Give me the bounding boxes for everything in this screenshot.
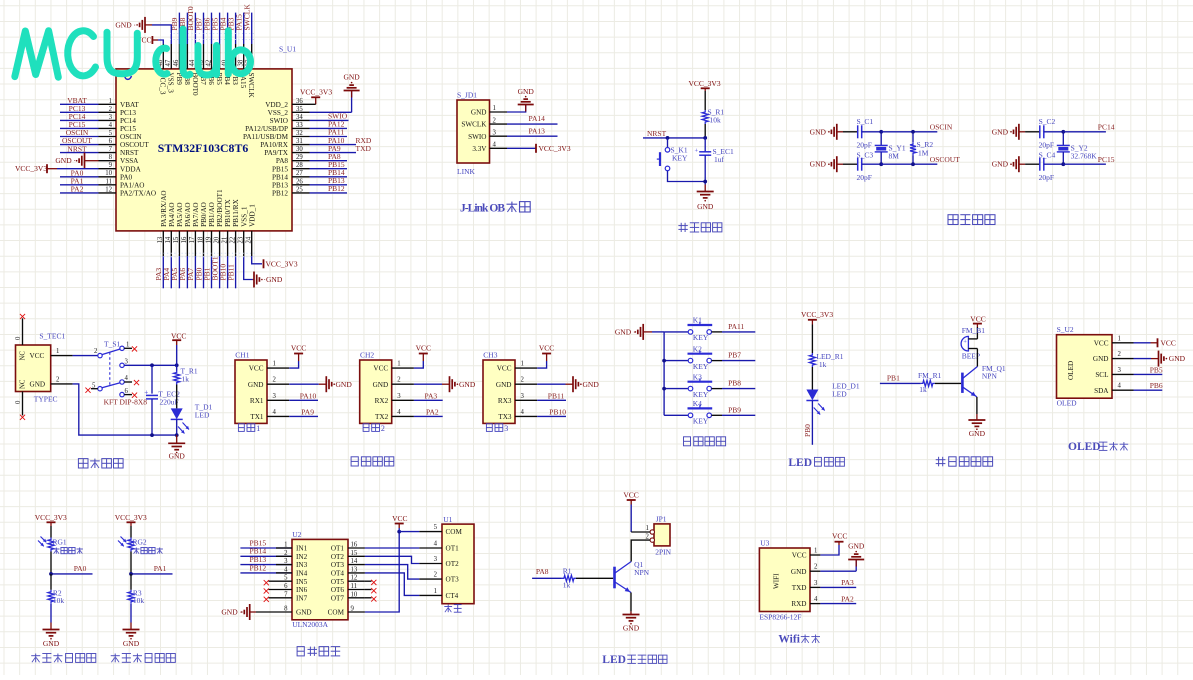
svg-text:3: 3 xyxy=(125,358,129,365)
svg-text:+: + xyxy=(963,339,967,346)
svg-text:NRST: NRST xyxy=(67,144,87,153)
wire OT1 xyxy=(365,547,419,549)
svg-text:WIFI: WIFI xyxy=(773,573,781,589)
svg-text:IN2: IN2 xyxy=(296,553,308,561)
svg-text:PC14: PC14 xyxy=(120,117,136,125)
svg-text:14: 14 xyxy=(165,236,172,243)
mcu top pin 41 PB5 xyxy=(219,44,221,69)
svg-text:S_C2: S_C2 xyxy=(1039,117,1056,126)
svg-text:6: 6 xyxy=(284,583,288,590)
svg-text:PA2: PA2 xyxy=(841,594,854,603)
mcu right pin 35 VSS_2 xyxy=(292,111,310,113)
mcu left pin 12 PA2/TX/AO xyxy=(99,192,117,194)
svg-text:KEY: KEY xyxy=(672,153,688,162)
svg-text:GND ·: GND · xyxy=(992,160,1013,169)
svg-text:PC15: PC15 xyxy=(120,125,136,133)
svg-text:S_C3: S_C3 xyxy=(857,150,874,159)
svg-text:STM32F103C8T6: STM32F103C8T6 xyxy=(158,141,249,155)
svg-text:OSCOUT: OSCOUT xyxy=(120,141,149,149)
svg-text:RXD: RXD xyxy=(791,600,806,608)
svg-text:PA2: PA2 xyxy=(426,407,439,416)
wire net PB9 xyxy=(712,414,723,416)
svg-text:220uF: 220uF xyxy=(160,398,179,407)
svg-text:+: + xyxy=(144,389,148,397)
svg-text:1: 1 xyxy=(814,548,817,555)
svg-text:VCC: VCC xyxy=(392,514,407,523)
CH1 pin 3 RX1 xyxy=(267,399,289,401)
svg-text:3: 3 xyxy=(397,393,401,400)
wire net PA15 xyxy=(243,13,245,44)
svg-text:32.768K: 32.768K xyxy=(1071,151,1098,160)
wire net PA0 xyxy=(50,552,52,574)
svg-text:OT6: OT6 xyxy=(331,586,345,594)
switch no-connects xyxy=(124,347,132,349)
svg-text:TYPEC: TYPEC xyxy=(34,395,58,404)
svg-text:1k: 1k xyxy=(182,374,190,383)
svg-text:3: 3 xyxy=(521,393,525,400)
wire net PA1 xyxy=(60,184,99,186)
svg-text:31: 31 xyxy=(296,138,303,145)
MCUclub logo xyxy=(15,29,251,77)
mcu right pin 26 PB13 xyxy=(292,184,310,186)
resistor S_R1 10k xyxy=(702,110,708,124)
ground RG2 xyxy=(130,604,132,623)
svg-text:PA10: PA10 xyxy=(300,391,317,400)
svg-text:PB11: PB11 xyxy=(548,391,565,400)
svg-text:VCC_3V3: VCC_3V3 xyxy=(300,88,332,97)
mcu top pin 45 PB8 xyxy=(186,44,188,69)
U1 pin 3 OT2 xyxy=(419,563,442,565)
wire net PA9 xyxy=(310,152,357,154)
resistor R1 1k xyxy=(562,575,576,581)
pushbutton S_K1 KEY xyxy=(665,148,670,153)
svg-text:PA2: PA2 xyxy=(71,185,84,194)
power VCC_3V3 at JD1 pin4 xyxy=(507,147,536,149)
wire net OSCOUT xyxy=(60,144,99,146)
svg-text:OSCIN: OSCIN xyxy=(120,133,142,141)
svg-text:LINK: LINK xyxy=(457,167,475,176)
svg-text:GND: GND xyxy=(248,381,264,389)
mcu right pin 30 PA9/TX xyxy=(292,152,310,154)
svg-text:PA8: PA8 xyxy=(276,157,289,165)
JD1 pin 1 GND xyxy=(490,111,508,113)
svg-text:4: 4 xyxy=(273,409,277,416)
svg-text:RX3: RX3 xyxy=(498,397,512,405)
photoresistor RG1 xyxy=(48,538,54,552)
CH2 pin 1 VCC xyxy=(392,367,414,369)
svg-text:GND: GND xyxy=(496,381,512,389)
wire xyxy=(862,131,882,133)
svg-text:T_S1: T_S1 xyxy=(104,340,121,349)
svg-text:SWIO: SWIO xyxy=(270,117,288,125)
svg-text:PB10/TX: PB10/TX xyxy=(224,199,232,227)
svg-text:PB6: PB6 xyxy=(1150,381,1163,390)
svg-text:PA3/RX/AO: PA3/RX/AO xyxy=(160,190,168,226)
svg-text:KEY: KEY xyxy=(693,417,709,426)
svg-text:10: 10 xyxy=(105,170,112,177)
svg-text:Wifi: Wifi xyxy=(778,634,800,646)
svg-text:20pF: 20pF xyxy=(857,141,872,150)
svg-text:NPN: NPN xyxy=(634,568,650,577)
svg-text:1k: 1k xyxy=(819,360,827,369)
svg-text:RX2: RX2 xyxy=(375,397,389,405)
wire net PC14 xyxy=(60,119,99,121)
svg-text:47: 47 xyxy=(165,59,172,66)
svg-text:2: 2 xyxy=(397,377,401,384)
wire net PA5 xyxy=(178,256,180,288)
mcu top pin 40 PB4 xyxy=(227,44,229,69)
U2 pin 3 IN3 net PB13 xyxy=(240,564,292,566)
svg-text:PA0: PA0 xyxy=(74,564,87,573)
svg-text:34: 34 xyxy=(296,114,303,121)
TEC1 top NC pin xyxy=(22,318,24,345)
mcu top pin 47 VSS_3 xyxy=(170,44,172,69)
svg-text:TX1: TX1 xyxy=(250,413,264,421)
U3 pin 2 GND xyxy=(810,570,820,572)
svg-text:9: 9 xyxy=(109,162,113,169)
U2 pin 4 SDA xyxy=(1112,389,1134,391)
pushbutton K2 KEY xyxy=(664,360,688,362)
svg-text:2: 2 xyxy=(814,564,818,571)
svg-text:VCC: VCC xyxy=(30,352,45,360)
U2 pin 14 OT3 xyxy=(348,564,365,566)
wire to key xyxy=(667,138,669,148)
wire net PA2 xyxy=(820,603,856,605)
mcu U1 STM32F103C8T6 body xyxy=(116,69,292,231)
svg-text:3: 3 xyxy=(273,393,277,400)
ground wifi xyxy=(820,570,856,572)
svg-text:GND: GND xyxy=(1169,354,1186,363)
svg-text:IN1: IN1 xyxy=(296,545,308,553)
ground reset xyxy=(704,185,706,192)
wire net SWCLK xyxy=(251,13,253,44)
svg-text:PA3: PA3 xyxy=(425,391,438,400)
svg-text:10k: 10k xyxy=(53,596,65,605)
svg-text:2: 2 xyxy=(493,117,497,124)
mcu top pin 37 SWCLK xyxy=(251,44,253,69)
svg-text:TX2: TX2 xyxy=(375,413,389,421)
pushbutton K1 KEY xyxy=(664,331,688,333)
svg-text:OT2: OT2 xyxy=(446,560,460,568)
wire net PB1 xyxy=(211,256,213,288)
svg-text:5: 5 xyxy=(284,575,288,582)
svg-text:PB1: PB1 xyxy=(887,373,900,382)
svg-text:15: 15 xyxy=(173,236,180,243)
svg-text:13: 13 xyxy=(351,566,358,573)
mcu bottom pin 24 VDD_1 xyxy=(251,231,253,256)
svg-text:TXD: TXD xyxy=(356,144,372,153)
wire xyxy=(862,163,882,165)
wire net PA8 xyxy=(310,160,348,162)
svg-text:VCC: VCC xyxy=(970,315,985,324)
svg-text:PA1/AO: PA1/AO xyxy=(120,181,145,189)
svg-text:19: 19 xyxy=(205,236,212,243)
svg-text:TXD: TXD xyxy=(792,584,807,592)
svg-text:OT4: OT4 xyxy=(331,570,345,578)
svg-text:CH1: CH1 xyxy=(235,350,249,359)
svg-text:GND: GND xyxy=(969,429,986,438)
ground oled xyxy=(1134,358,1152,360)
wire net PA10 xyxy=(289,399,318,401)
svg-text:1: 1 xyxy=(256,424,260,433)
svg-text:3: 3 xyxy=(284,558,288,565)
wire xyxy=(668,171,706,182)
wire pin2 to gnd rail xyxy=(73,384,177,435)
mcu left pin 10 PA0 xyxy=(99,176,117,178)
mcu left pin 1 VBAT xyxy=(99,103,117,105)
mcu bottom pin 20 PB2/BOOT1 xyxy=(219,231,221,256)
svg-text:GND: GND xyxy=(623,623,640,632)
svg-text:FM_B1: FM_B1 xyxy=(962,326,986,335)
svg-text:PA11: PA11 xyxy=(728,322,744,331)
wire xyxy=(1025,163,1040,165)
svg-text:3.3V: 3.3V xyxy=(472,145,487,153)
svg-text:VCC_3V3: VCC_3V3 xyxy=(539,144,571,153)
svg-text:COM: COM xyxy=(328,609,345,617)
svg-text:PA5/AO: PA5/AO xyxy=(176,202,184,227)
U1 pin 5 COM xyxy=(419,531,442,533)
wire net PA3 xyxy=(820,586,856,588)
svg-text:PC13: PC13 xyxy=(120,109,136,117)
mcu bottom pin 17 PA7/AO xyxy=(194,231,196,256)
svg-text:46: 46 xyxy=(173,59,180,66)
svg-text:LED: LED xyxy=(832,390,847,399)
svg-text:1: 1 xyxy=(126,341,129,348)
wire net PB7 xyxy=(712,360,723,362)
svg-text:NPN: NPN xyxy=(982,372,998,381)
CH3 pin 2 GND xyxy=(515,383,537,385)
mcu right pin 27 PB14 xyxy=(292,176,310,178)
svg-text:NRST: NRST xyxy=(120,149,139,157)
capacitor T_EC2 220uF xyxy=(151,365,153,393)
svg-text:0: 0 xyxy=(15,336,22,340)
ground RG1 xyxy=(50,604,52,623)
svg-text:29: 29 xyxy=(296,154,303,161)
mcu left pin 5 OSCIN xyxy=(99,136,117,138)
junction xyxy=(703,136,707,140)
svg-text:K3: K3 xyxy=(693,372,702,381)
svg-text:24: 24 xyxy=(246,236,253,243)
dotted mask band top xyxy=(170,34,256,40)
U2 pin 1 IN1 net PB15 xyxy=(240,547,292,549)
svg-text:U1: U1 xyxy=(443,515,452,524)
resistor R2 10k xyxy=(50,574,52,590)
svg-text:IN6: IN6 xyxy=(296,586,308,594)
svg-text:8: 8 xyxy=(109,154,113,161)
wire xyxy=(881,131,913,133)
wire net PB15 xyxy=(310,168,348,170)
wire net PB10 xyxy=(227,256,229,288)
mcu right pin 25 PB12 xyxy=(292,192,310,194)
connector JP1 2PIN body xyxy=(654,524,670,546)
connector TEC1 TYPEC body xyxy=(16,345,51,392)
mcu bottom pin 22 PB11/RX xyxy=(235,231,237,256)
CH3 pin 4 TX3 xyxy=(515,415,537,417)
svg-text:4: 4 xyxy=(1118,383,1122,390)
svg-text:GND: GND xyxy=(43,639,60,648)
svg-text:35: 35 xyxy=(296,106,303,113)
mcu right pin 31 PA10/RX xyxy=(292,144,310,146)
U2 pin 2 GND xyxy=(1112,358,1134,360)
svg-text:S_U2: S_U2 xyxy=(1057,325,1074,334)
svg-text:GND ·: GND · xyxy=(615,328,636,337)
wire net PB6 xyxy=(1134,389,1163,391)
svg-text:KFT DIP-8X8: KFT DIP-8X8 xyxy=(104,398,148,407)
wire COM xyxy=(365,532,399,612)
photoresistor RG2 xyxy=(128,538,134,552)
U3 pin 1 VCC xyxy=(810,554,820,556)
svg-text:RG2: RG2 xyxy=(133,538,147,547)
svg-text:1: 1 xyxy=(521,361,524,368)
wire net PA6 xyxy=(186,256,188,288)
wire pin2 to collector xyxy=(631,540,650,561)
ground CH2 xyxy=(414,383,442,385)
svg-text:GND: GND xyxy=(459,380,476,389)
wire net PA9 xyxy=(289,415,318,417)
mcu right pin 34 SWIO xyxy=(292,119,310,121)
svg-text:GND ·: GND · xyxy=(221,608,242,617)
svg-text:PA7/AO: PA7/AO xyxy=(192,202,200,227)
svg-text:VCC: VCC xyxy=(623,491,638,500)
ground at bottom pin 23 VSS_1 xyxy=(244,256,253,279)
svg-text:20: 20 xyxy=(213,236,220,243)
mcu top pin 42 PB6 xyxy=(211,44,213,69)
transistor FM_Q1 NPN xyxy=(961,373,964,393)
svg-text:6: 6 xyxy=(125,388,129,395)
wire net PB14 xyxy=(310,176,348,178)
wire net PC14 xyxy=(1063,131,1106,133)
svg-text:3: 3 xyxy=(109,114,113,121)
svg-text:3: 3 xyxy=(504,424,508,433)
svg-text:8: 8 xyxy=(284,606,288,613)
wire xyxy=(1044,163,1064,165)
wire net PC13 xyxy=(60,111,99,113)
svg-text:PB13: PB13 xyxy=(272,181,288,189)
svg-text:20pF: 20pF xyxy=(1039,173,1054,182)
svg-text:4: 4 xyxy=(521,409,525,416)
CH2 pin 4 TX2 xyxy=(392,415,414,417)
U3 pin 3 TXD xyxy=(810,586,820,588)
svg-text:25: 25 xyxy=(296,186,303,193)
svg-text:2: 2 xyxy=(273,377,277,384)
ground CH3 xyxy=(537,383,565,385)
svg-text:PB7: PB7 xyxy=(728,351,741,360)
wire emitter to ground xyxy=(976,397,978,414)
svg-text:0: 0 xyxy=(15,400,22,404)
svg-text:PB9: PB9 xyxy=(728,405,741,414)
mcu top pin 43 PB7 xyxy=(203,44,205,69)
U1 pin 2 OT3 xyxy=(419,578,442,580)
wire net PA11 xyxy=(712,331,723,333)
mcu left pin 2 PC13 xyxy=(99,111,117,113)
svg-text:5: 5 xyxy=(109,130,113,137)
svg-text:18: 18 xyxy=(197,236,204,243)
svg-text:PB1/AO: PB1/AO xyxy=(208,202,216,227)
svg-text:NC: NC xyxy=(20,351,27,361)
resistor T_R1 1k xyxy=(176,365,178,370)
wire net PA11 xyxy=(310,136,348,138)
svg-text:GND ·: GND · xyxy=(992,127,1013,136)
svg-text:·GND: ·GND xyxy=(264,275,283,284)
svg-text:4: 4 xyxy=(814,596,818,603)
svg-text:K2: K2 xyxy=(693,344,702,353)
svg-text:GND: GND xyxy=(583,380,600,389)
svg-text:ESP8266-12F: ESP8266-12F xyxy=(759,612,801,621)
svg-text:PA11/USB/DM: PA11/USB/DM xyxy=(243,133,289,141)
U2 pin 9 COM xyxy=(348,611,365,613)
power VCC oled xyxy=(1134,342,1151,344)
svg-text:GND: GND xyxy=(848,542,865,551)
LED LED_D1 xyxy=(806,390,818,401)
JD1 pin 2 SWCLK xyxy=(490,123,508,125)
capacitor S_EC1 1uf xyxy=(704,138,706,152)
svg-text:OLED: OLED xyxy=(1057,399,1078,408)
svg-text:K1: K1 xyxy=(693,316,702,325)
svg-text:LED: LED xyxy=(602,654,626,666)
svg-text:PA10/RX: PA10/RX xyxy=(260,141,289,149)
switch link dashed xyxy=(109,352,111,385)
svg-text:NC: NC xyxy=(20,379,27,389)
svg-text:PB14: PB14 xyxy=(272,173,288,181)
svg-text:VCC_3V3: VCC_3V3 xyxy=(266,259,298,268)
svg-text:OSCOUT: OSCOUT xyxy=(930,155,960,164)
mcu left pin 7 NRST xyxy=(99,152,117,154)
switch levers xyxy=(102,349,120,355)
svg-text:3: 3 xyxy=(1118,367,1122,374)
wire net PB11 xyxy=(537,399,566,401)
svg-text:3: 3 xyxy=(493,129,497,136)
mcu top pin 46 PB9 xyxy=(178,44,180,69)
display U2 OLED body xyxy=(1057,335,1113,399)
svg-text:PC15: PC15 xyxy=(1098,155,1115,164)
svg-text:1: 1 xyxy=(645,525,648,532)
svg-text:2: 2 xyxy=(1118,351,1122,358)
svg-text:VBAT: VBAT xyxy=(120,101,139,109)
svg-text:38: 38 xyxy=(238,59,245,66)
mcu bottom pin 14 PA4/AO xyxy=(170,231,172,256)
svg-text:VCC: VCC xyxy=(497,365,512,373)
svg-text:OSCIN: OSCIN xyxy=(930,123,953,132)
wire xyxy=(176,419,178,435)
svg-text:GND: GND xyxy=(373,381,389,389)
wire net PB12 xyxy=(310,192,348,194)
svg-text:21: 21 xyxy=(221,237,228,244)
svg-text:R1: R1 xyxy=(563,567,572,576)
connector CH2 body xyxy=(360,360,392,423)
mcu right pin 32 PA11/USB/DM xyxy=(292,136,310,138)
svg-text:16: 16 xyxy=(181,236,188,243)
ground at JD1 pin1 xyxy=(507,105,526,113)
title serial circuit xyxy=(351,457,358,466)
capacitor S_C4 20pF xyxy=(1039,158,1041,171)
crystal S_Y1 8M xyxy=(880,132,882,146)
svg-text:IN4: IN4 xyxy=(296,570,308,578)
title key circuit xyxy=(684,437,691,446)
TEC1 bottom NC pin xyxy=(22,392,24,416)
svg-text:28: 28 xyxy=(296,162,303,169)
svg-text:VCC: VCC xyxy=(1094,339,1109,347)
wire xyxy=(843,163,858,165)
wire net PA2 xyxy=(414,415,443,417)
svg-text:S_TEC1: S_TEC1 xyxy=(39,332,65,341)
power VCC CH2 xyxy=(414,361,423,368)
power VCC CH3 xyxy=(537,361,546,368)
svg-text:33: 33 xyxy=(296,122,303,129)
svg-text:2: 2 xyxy=(56,376,60,383)
svg-text:PB10: PB10 xyxy=(549,407,566,416)
wire net PA0 xyxy=(60,176,99,178)
wire net BOOT1 xyxy=(219,256,221,288)
